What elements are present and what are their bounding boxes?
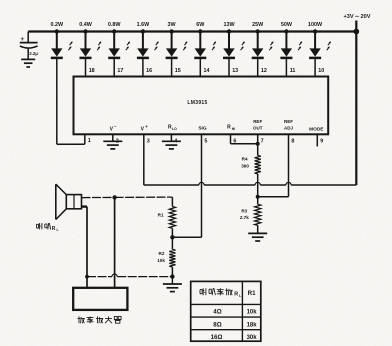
- svg-text:390: 390: [241, 163, 249, 168]
- LED D6: [194, 29, 216, 58]
- wire pin 5 SIG down: [172, 134, 201, 237]
- label 50W: [281, 22, 293, 28]
- svg-text:13: 13: [232, 68, 238, 74]
- wire LED D4 cathode to pin 16: [142, 58, 144, 77]
- amplifier box: [73, 288, 127, 310]
- svg-text:14: 14: [204, 68, 210, 74]
- label 25W: [252, 22, 264, 28]
- pin 3 number: [147, 138, 150, 144]
- table row 4ohm: [213, 309, 257, 316]
- svg-text:7: 7: [261, 138, 264, 144]
- svg-text:R: R: [52, 226, 56, 232]
- pin 12 label: [261, 68, 267, 74]
- wire LED D7 cathode to pin 13: [228, 58, 230, 77]
- svg-text:17: 17: [117, 68, 123, 74]
- resistor R4 390: [241, 155, 261, 174]
- svg-text:0.2W: 0.2W: [51, 22, 64, 28]
- svg-text:MODE: MODE: [309, 127, 324, 133]
- svg-text:R1: R1: [248, 290, 256, 297]
- wire pin 2 to ground: [112, 134, 114, 141]
- ground for C1: [21, 59, 35, 67]
- svg-text:LO: LO: [172, 127, 177, 131]
- svg-text:+: +: [145, 124, 148, 129]
- svg-text:9: 9: [320, 138, 323, 144]
- table header R1: [248, 290, 256, 297]
- label 6W: [196, 22, 205, 28]
- pin label REF OUT: [253, 119, 263, 130]
- wire LED D1 cathode to pin 1: [57, 58, 85, 144]
- pin label REF ADJ: [284, 119, 293, 130]
- pin 2 number: [116, 138, 119, 144]
- LED D9: [280, 29, 302, 58]
- svg-text:HI: HI: [232, 127, 235, 131]
- pin 6 number: [233, 138, 236, 144]
- svg-text:13W: 13W: [223, 22, 235, 28]
- svg-text:30k: 30k: [247, 335, 258, 341]
- label 0.2W: [51, 22, 64, 28]
- pin 4 number: [174, 138, 177, 144]
- svg-text:ADJ: ADJ: [284, 126, 293, 131]
- wire pin 6 RHI to REF OUT: [231, 134, 258, 144]
- svg-text:1: 1: [88, 138, 91, 144]
- svg-text:12: 12: [261, 68, 267, 74]
- svg-text:8: 8: [291, 138, 294, 144]
- wire junction to pin 8 REF ADJ: [258, 134, 289, 196]
- node SIG junction: [170, 228, 174, 249]
- svg-text:2.2μ: 2.2μ: [29, 51, 38, 56]
- svg-text:15: 15: [175, 68, 181, 74]
- amplifier label: [78, 316, 122, 323]
- pin label V-: [110, 124, 118, 132]
- svg-text:0.4W: 0.4W: [79, 22, 92, 28]
- svg-text:16Ω: 16Ω: [211, 334, 223, 341]
- ground below R2: [163, 277, 182, 292]
- table row 16ohm: [211, 334, 258, 341]
- pin 13 label: [232, 68, 238, 74]
- wire speaker to R1: [82, 196, 173, 199]
- speaker label RL: [37, 223, 59, 232]
- resistor R2 10k: [157, 249, 175, 267]
- wire pin 3 V+ to supply rail: [144, 134, 356, 185]
- wire pin 4 to ground: [170, 134, 172, 141]
- label 13W: [223, 22, 235, 28]
- wire R4 to junction: [257, 174, 259, 197]
- LED D7: [223, 29, 245, 58]
- wire LED D3 cathode to pin 17: [113, 58, 115, 77]
- wire LED D8 cathode to pin 12: [257, 58, 259, 77]
- ground at pin 4: [162, 141, 181, 149]
- svg-text:18: 18: [89, 68, 95, 74]
- svg-text:16: 16: [146, 68, 152, 74]
- svg-text:R: R: [227, 125, 231, 131]
- wire amp return to ground: [85, 274, 172, 279]
- node ground junction: [170, 267, 174, 279]
- svg-text:OUT: OUT: [253, 126, 263, 131]
- capacitor C1 2.2u: [20, 32, 39, 60]
- wire V+ right rail: [353, 21, 359, 186]
- svg-text:+: +: [21, 37, 25, 43]
- LED D8: [252, 29, 274, 58]
- wire LED D6 cathode to pin 14: [199, 58, 201, 77]
- ground below R3: [248, 225, 267, 241]
- pin 10 label: [318, 68, 324, 74]
- svg-text:R: R: [234, 291, 238, 297]
- wire LED D5 cathode to pin 15: [171, 58, 173, 77]
- pin 5 number: [204, 138, 207, 144]
- pin label RLO: [168, 125, 177, 132]
- ground at pin 2: [103, 141, 122, 149]
- label 0.8W: [108, 22, 121, 28]
- LED D10: [309, 29, 331, 58]
- LED D3: [108, 29, 130, 58]
- pin 14 label: [204, 68, 210, 74]
- svg-text:10k: 10k: [157, 258, 165, 263]
- svg-text:L: L: [56, 228, 58, 232]
- pin 8 number: [291, 138, 294, 144]
- pin label MODE: [309, 127, 324, 133]
- resistor R3 2.7k: [240, 197, 261, 226]
- svg-text:1.6W: 1.6W: [137, 22, 150, 28]
- pin 1 label: [88, 138, 91, 144]
- wire pin 7 REF OUT down: [257, 134, 259, 155]
- svg-text:8Ω: 8Ω: [213, 321, 221, 328]
- svg-text:0.8W: 0.8W: [108, 22, 121, 28]
- op-amp U1 LM3915 body: [74, 77, 329, 135]
- table row 8ohm: [213, 321, 257, 328]
- svg-text:4Ω: 4Ω: [213, 309, 221, 316]
- svg-text:R1: R1: [158, 213, 164, 218]
- svg-text:6W: 6W: [196, 22, 205, 28]
- wire top LED supply rail: [28, 30, 356, 32]
- resistor R1: [158, 207, 176, 229]
- pin 17 label: [117, 68, 123, 74]
- svg-text:REF: REF: [284, 119, 293, 124]
- table R1 selection: [191, 281, 261, 341]
- pin label RHI: [227, 125, 235, 132]
- svg-text:R3: R3: [241, 208, 247, 213]
- wire speaker return: [82, 207, 88, 288]
- wire amp output up: [114, 197, 116, 287]
- label 0.4W: [79, 22, 92, 28]
- svg-text:R4: R4: [242, 157, 248, 162]
- svg-text:+3V ∼ 20V: +3V ∼ 20V: [344, 14, 371, 20]
- label 100W: [308, 22, 323, 28]
- node REF ADJ junction: [256, 195, 260, 199]
- LED D5: [166, 29, 188, 58]
- U1 label LM3915: [187, 100, 207, 106]
- svg-text:2.7k: 2.7k: [240, 215, 249, 220]
- pin 9 number: [320, 138, 323, 144]
- pin label SIG: [198, 125, 207, 131]
- pin 18 label: [89, 68, 95, 74]
- svg-text:5: 5: [204, 138, 207, 144]
- LED D1: [51, 29, 73, 58]
- wire LED D2 cathode to pin 18: [85, 58, 87, 77]
- wire R1 top: [171, 197, 173, 206]
- node speaker-amp junction: [112, 195, 116, 199]
- LED D4: [137, 29, 159, 58]
- svg-text:100W: 100W: [308, 22, 323, 28]
- pin 7 number: [261, 138, 264, 144]
- svg-text:R2: R2: [159, 251, 165, 256]
- pin label V+: [141, 124, 149, 132]
- node +3V~20V supply label: [344, 14, 371, 20]
- node REF OUT junction: [256, 142, 260, 146]
- wire LED D10 cathode to pin 10: [314, 58, 316, 77]
- svg-text:25W: 25W: [252, 22, 264, 28]
- svg-text:LM3915: LM3915: [187, 100, 207, 106]
- svg-text:50W: 50W: [281, 22, 293, 28]
- svg-text:SIG: SIG: [198, 125, 207, 131]
- svg-text:3: 3: [147, 138, 150, 144]
- table header speaker impedance: [200, 288, 242, 298]
- svg-text:REF: REF: [253, 119, 262, 124]
- wire LED D9 cathode to pin 11: [285, 58, 287, 77]
- svg-text:11: 11: [290, 68, 296, 74]
- pin 15 label: [175, 68, 181, 74]
- LED D2: [80, 29, 102, 58]
- svg-text:18k: 18k: [247, 322, 258, 328]
- speaker LS1: [56, 184, 82, 219]
- svg-text:3W: 3W: [168, 22, 177, 28]
- pin 11 label: [290, 68, 296, 74]
- svg-text:10k: 10k: [247, 310, 258, 316]
- svg-text:10: 10: [318, 68, 324, 74]
- label 3W: [168, 22, 177, 28]
- pin 16 label: [146, 68, 152, 74]
- label 1.6W: [137, 22, 150, 28]
- wire pin 9 MODE stub: [316, 134, 318, 146]
